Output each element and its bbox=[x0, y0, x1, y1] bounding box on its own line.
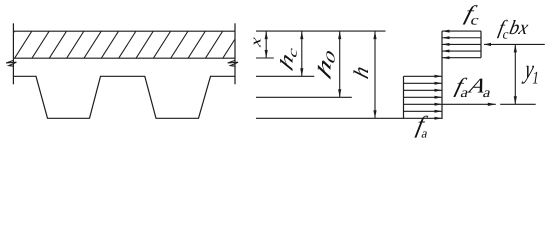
svg-text:y1: y1 bbox=[521, 55, 542, 88]
svg-text:hc: hc bbox=[277, 39, 300, 75]
svg-text:h: h bbox=[350, 63, 373, 81]
svg-text:faAa: faAa bbox=[452, 75, 495, 101]
svg-text:x: x bbox=[247, 36, 264, 49]
svg-text:fc: fc bbox=[462, 3, 484, 28]
svg-text:fa: fa bbox=[414, 112, 433, 141]
svg-text:fcbx: fcbx bbox=[496, 17, 530, 42]
svg-text:h0: h0 bbox=[315, 41, 337, 85]
